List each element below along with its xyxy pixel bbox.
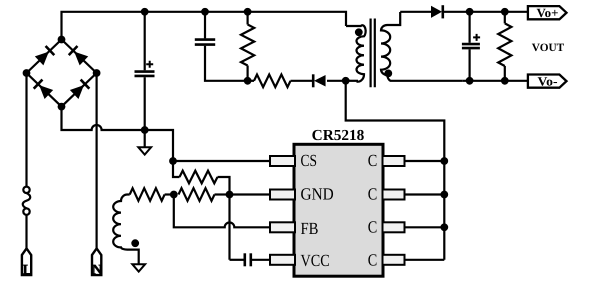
pin GND (left) (270, 190, 295, 200)
wire: output bottom rail to Vo- terminal (462, 80, 528, 82)
pin VCC (left) (270, 255, 295, 265)
node: bridge top (+) (58, 36, 66, 44)
resistor R2 (clamp series resistor) (254, 75, 291, 88)
node: bus at FB row (440, 223, 448, 231)
transformer T1 primary winding (346, 25, 366, 81)
wire: bulk capacitor C1 top lead (144, 12, 146, 71)
node: output - at R3 (501, 77, 509, 85)
wire: output diode to Vo+ terminal (443, 11, 528, 13)
wire: GND row to GND pin (230, 193, 271, 195)
svg-text:GND: GND (301, 184, 334, 203)
resistor R3 (output load) leads (504, 12, 506, 24)
wire: snubber capacitor C2 bottom lead then right to node (205, 46, 248, 81)
terminal Vo- (528, 75, 567, 88)
capacitor C3 plates (462, 43, 480, 46)
wire: bridge bottom to primary ground rail with hop over N line (62, 107, 174, 161)
diode D2 (bridge upper-right, cathode to DC+) (69, 46, 89, 65)
node: bridge right (AC) (93, 69, 101, 77)
op-amp U1 CR5218 body (294, 144, 383, 276)
wire: snubber capacitor C2 top lead (204, 12, 206, 39)
diode D5 (clamp diode, cathode left) (313, 74, 325, 87)
node: output - at C3 (466, 77, 474, 85)
fuse F1 on L line (23, 187, 31, 215)
svg-text:Vo+: Vo+ (537, 6, 559, 20)
wire: series resistor R2 to clamp diode D5 (291, 80, 313, 82)
node: top rail at R1 (244, 8, 252, 16)
wire: C4 to VCC pin (252, 259, 270, 261)
node: bridge bottom (-) (58, 103, 66, 111)
wire: divider node down to FB row, hop over VCC line, to FB pin (174, 195, 270, 228)
pin FB (left) (270, 222, 295, 232)
wire: R5 to divider node (165, 193, 174, 195)
svg-text:CS: CS (301, 151, 318, 170)
node: output + at R3 (501, 8, 509, 16)
svg-text:FB: FB (301, 219, 319, 238)
svg-text:C: C (368, 218, 378, 237)
wire: primary return down and right to IC right-side bus (346, 81, 445, 260)
resistor R4 (upper, CS to GND node) (180, 171, 218, 184)
pin 8 (right, row VCC) (383, 255, 405, 265)
wire: secondary top to output diode D6 (400, 11, 432, 13)
pin CS (left) (270, 156, 295, 166)
pin 7 (right, row FB) (383, 222, 405, 232)
resistor R1 (clamp resistor, vertical) (241, 25, 254, 66)
svg-text:L: L (23, 263, 32, 278)
ground (aux winding return) (132, 264, 145, 271)
node: primary bottom junction (342, 77, 350, 85)
wire: CS row from ground-rail corner to CS pin (173, 160, 270, 162)
node: GND junction (226, 191, 234, 199)
svg-text:C: C (368, 151, 378, 170)
phase dot (aux winding) (131, 239, 139, 247)
bridge rectifier BD1 edges (27, 40, 97, 107)
wire: CS right pin to bus (405, 160, 445, 162)
svg-text:C: C (368, 184, 378, 203)
svg-text:VOUT: VOUT (532, 42, 565, 54)
wire: FB right pin to bus (405, 226, 445, 228)
node: output + at C3 (466, 8, 474, 16)
wire: clamp diode D5 to primary bottom junction (327, 80, 346, 82)
wire: fuse to L terminal (25, 215, 27, 249)
resistor R6 (divider node to GND node) (179, 188, 215, 201)
node: bus at CS row (440, 157, 448, 165)
wire: VCC row to coupling cap C4 (230, 259, 245, 261)
svg-text:N: N (92, 263, 102, 278)
wire: VCC right pin to bus (405, 259, 445, 261)
diode D4 (bridge lower-right, cathode to N node) (70, 80, 90, 99)
wire: DC+ top rail from bridge top to transformer primary (62, 12, 347, 40)
diode D1 (bridge upper-left, cathode to DC+) (35, 46, 55, 65)
node: top rail at C1 (141, 8, 149, 16)
capacitor C2 (clamp cap) plates (195, 38, 215, 41)
wire: primary winding bottom to junction (346, 80, 358, 82)
node: bridge left (AC) (23, 69, 31, 77)
node: bus at GND row (440, 191, 448, 199)
node: top rail at C2 (201, 8, 209, 16)
phase dot (secondary) (384, 70, 392, 78)
capacitor C4 (VCC coupling) plates (244, 253, 247, 266)
terminal L (line input) (22, 248, 31, 275)
phase dot (primary) (355, 28, 363, 36)
capacitor C3 (output electrolytic) leads (469, 12, 471, 43)
wire: GND node down to VCC row (228, 195, 230, 260)
node: rail-ground junction (141, 126, 149, 134)
node: clamp node (244, 77, 252, 85)
svg-text:CR5218: CR5218 (312, 127, 365, 144)
transformer T1 core (370, 19, 372, 88)
svg-text:VCC: VCC (301, 251, 330, 270)
svg-text:Vo-: Vo- (538, 74, 558, 88)
wire: R4 right end to GND node (218, 177, 230, 195)
polarity + of C1 (146, 61, 153, 68)
terminal Vo+ (528, 6, 567, 19)
wire: CS node down to feedback resistor R4 (173, 161, 180, 177)
ground (primary ground at bulk cap) (144, 130, 146, 147)
node: divider junction (170, 191, 178, 199)
wire: bulk capacitor C1 bottom lead (144, 77, 146, 130)
wire: GND right pin to bus (405, 193, 445, 195)
svg-text:C: C (368, 250, 378, 269)
wire: L line from bridge left node down to fuse (25, 73, 27, 187)
transformer T1 secondary winding (381, 12, 462, 81)
terminal N (neutral input) (92, 248, 101, 275)
wire: clamp resistor R1 top lead (247, 12, 249, 25)
node: CS junction (169, 157, 177, 165)
pin 6 (right, row GND) (383, 190, 405, 200)
capacitor C1 (bulk electrolytic) plates (135, 70, 155, 73)
diode D3 (bridge lower-left, cathode to L node) (34, 80, 54, 99)
wire: clamp node to series resistor R2 (248, 80, 254, 82)
resistor R3 (output load) (498, 23, 511, 66)
diode D6 (output rectifier) (431, 5, 443, 18)
pin 5 (right, row CS) (383, 156, 405, 166)
inductor L1 (auxiliary winding) (113, 195, 139, 265)
resistor R5 (aux winding to divider node) (130, 188, 165, 201)
wire: R6 to GND node (215, 193, 230, 195)
wire: clamp resistor R1 bottom lead (247, 66, 249, 81)
wire: N line from bridge right node down to N terminal (95, 73, 97, 249)
polarity + of C3 (473, 34, 480, 41)
